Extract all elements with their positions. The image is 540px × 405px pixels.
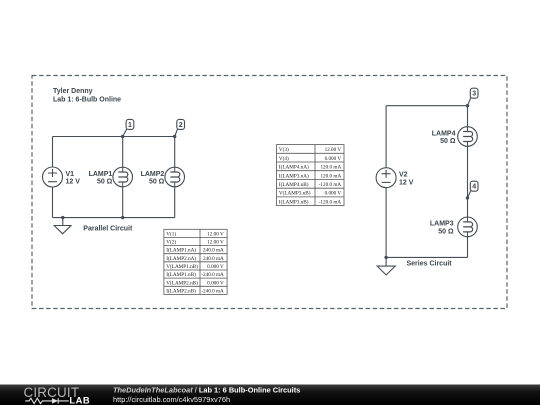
- wire: left ground stem: [62, 218, 64, 226]
- wire: LAMP3 bottom lead: [467, 237, 469, 258]
- wire: right ground stem: [385, 257, 387, 266]
- wire: LAMP2 bottom lead: [174, 187, 176, 218]
- node 1: [123, 119, 134, 136]
- svg-text:240.0 mA: 240.0 mA: [203, 248, 224, 254]
- svg-text:I(LAMP3.nB): I(LAMP3.nB): [279, 198, 309, 205]
- svg-text:50 Ω: 50 Ω: [97, 179, 113, 186]
- svg-text:12.00 V: 12.00 V: [325, 147, 342, 153]
- ground (right): [377, 266, 395, 275]
- wire: LAMP1 bottom lead: [122, 187, 124, 218]
- svg-text:http://circuitlab.com/c4kv5979: http://circuitlab.com/c4kv5979xv76h: [113, 395, 230, 404]
- ground (left): [54, 226, 71, 234]
- junction dot: node1 on top bus: [121, 135, 124, 138]
- svg-text:-240.0 mA: -240.0 mA: [201, 288, 224, 294]
- svg-text:TheDudeInTheLabcoat / Lab 1: 6: TheDudeInTheLabcoat / Lab 1: 6 Bulb-Onli…: [113, 385, 300, 394]
- wire: LAMP4-LAMP3 connecting wire: [467, 147, 469, 217]
- svg-text:0.000 V: 0.000 V: [325, 191, 342, 197]
- title text: [53, 88, 121, 104]
- junction dot: ground on right bottom bus: [384, 256, 387, 259]
- svg-text:V2: V2: [399, 172, 408, 179]
- node 2: [175, 119, 185, 136]
- svg-text:6.000 V: 6.000 V: [325, 156, 342, 162]
- measurement table: series circuit results: [277, 145, 345, 206]
- measurement table: parallel circuit results: [164, 229, 227, 294]
- svg-text:V1: V1: [66, 171, 75, 178]
- wire: V1 bottom lead: [52, 187, 54, 218]
- wire: right circuit bottom bus: [386, 256, 467, 258]
- svg-text:LAMP4: LAMP4: [432, 130, 456, 137]
- svg-text:V(4): V(4): [279, 155, 289, 162]
- svg-text:3: 3: [472, 91, 476, 98]
- lamp LAMP1: [113, 167, 133, 187]
- junction dot: node3 on top bus: [466, 104, 469, 107]
- svg-text:V(2): V(2): [166, 239, 176, 246]
- svg-text:240.0 mA: 240.0 mA: [203, 256, 224, 262]
- svg-text:LAMP2: LAMP2: [141, 171, 165, 178]
- svg-text:I(LAMP2.nA): I(LAMP2.nA): [166, 255, 196, 262]
- svg-text:2: 2: [179, 122, 183, 129]
- svg-text:12 V: 12 V: [399, 179, 414, 186]
- junction dot: LAMP1 on bottom bus: [121, 216, 124, 219]
- node 4: [468, 181, 479, 198]
- wire: V1 top lead: [52, 137, 54, 168]
- svg-text:-120.0 mA: -120.0 mA: [319, 199, 342, 205]
- svg-text:0.000 V: 0.000 V: [207, 280, 224, 286]
- voltage source V1: [43, 167, 63, 187]
- svg-text:Lab 1: 6-Bulb Online: Lab 1: 6-Bulb Online: [53, 97, 121, 104]
- svg-text:-240.0 mA: -240.0 mA: [201, 272, 224, 278]
- lamp LAMP2: [165, 167, 185, 187]
- svg-text:I(LAMP4.nA): I(LAMP4.nA): [279, 164, 309, 171]
- logo circuit glyph: resistor zigzag and diode: [25, 398, 69, 403]
- svg-text:LAB: LAB: [69, 395, 90, 405]
- svg-text:V(LAMP1.nB): V(LAMP1.nB): [166, 263, 198, 270]
- lamp LAMP4: [458, 127, 478, 147]
- svg-text:12.00 V: 12.00 V: [207, 231, 224, 237]
- junction dot: ground on bottom bus: [61, 216, 64, 219]
- lamp LAMP3: [458, 217, 478, 237]
- svg-text:I(LAMP1.nB): I(LAMP1.nB): [166, 271, 196, 278]
- svg-text:-120.0 mA: -120.0 mA: [319, 182, 342, 188]
- svg-text:50 Ω: 50 Ω: [438, 229, 454, 236]
- svg-text:Parallel Circuit: Parallel Circuit: [83, 226, 133, 233]
- junction dot: node2 on top bus: [173, 135, 176, 138]
- svg-text:0.000 V: 0.000 V: [207, 264, 224, 270]
- svg-text:V(3): V(3): [279, 146, 289, 153]
- svg-text:LAMP3: LAMP3: [430, 221, 454, 228]
- svg-text:V(LAMP3.nB): V(LAMP3.nB): [279, 190, 311, 197]
- wire: left circuit bottom bus: [53, 217, 175, 219]
- wire: LAMP2 top lead: [174, 137, 176, 168]
- svg-text:V(1): V(1): [166, 230, 176, 237]
- wire: LAMP4 top lead: [467, 106, 469, 127]
- svg-text:50 Ω: 50 Ω: [440, 138, 456, 145]
- wire: V2 top lead: [385, 106, 387, 168]
- svg-text:I(LAMP2.nB): I(LAMP2.nB): [166, 287, 196, 294]
- svg-text:I(LAMP4.nB): I(LAMP4.nB): [279, 181, 309, 188]
- svg-text:LAMP1: LAMP1: [89, 171, 113, 178]
- node 3: [468, 88, 479, 106]
- svg-text:120.0 mA: 120.0 mA: [320, 173, 341, 179]
- voltage source V2: [376, 168, 396, 188]
- wire: right circuit top bus: [386, 105, 467, 107]
- wire: LAMP1 top lead: [122, 137, 124, 168]
- svg-text:1: 1: [128, 122, 132, 129]
- svg-text:V(LAMP2.nB): V(LAMP2.nB): [166, 279, 198, 286]
- svg-text:4: 4: [472, 184, 476, 191]
- svg-text:12.00 V: 12.00 V: [207, 240, 224, 246]
- svg-text:I(LAMP1.nA): I(LAMP1.nA): [166, 247, 196, 254]
- junction dot: node4 on wire: [466, 196, 469, 199]
- svg-text:Tyler Denny: Tyler Denny: [53, 88, 93, 95]
- svg-text:12 V: 12 V: [66, 179, 81, 186]
- svg-text:I(LAMP3.nA): I(LAMP3.nA): [279, 172, 309, 179]
- svg-text:120.0 mA: 120.0 mA: [320, 165, 341, 171]
- schematic sheet dashed boundary: [32, 76, 507, 309]
- svg-text:50 Ω: 50 Ω: [149, 179, 165, 186]
- wire: left circuit top bus: [53, 136, 175, 138]
- svg-text:Series Circuit: Series Circuit: [407, 260, 453, 267]
- wire: V2 bottom lead: [385, 188, 387, 257]
